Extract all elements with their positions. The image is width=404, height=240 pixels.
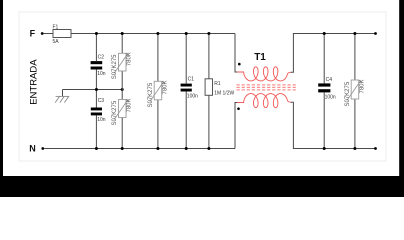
wire F to fuse <box>44 33 53 35</box>
varistor RV4 <box>345 79 365 106</box>
sheet frame <box>19 12 386 161</box>
svg-text:C2: C2 <box>98 54 105 60</box>
varistor RV3 <box>148 80 168 107</box>
capacitor C4 <box>318 77 336 101</box>
junction dot tie-V <box>121 88 124 91</box>
wire primary drop <box>235 34 238 73</box>
svg-text:780K: 780K <box>127 52 133 66</box>
border right <box>399 0 404 197</box>
svg-text:ENTRADA: ENTRADA <box>28 59 39 105</box>
wire column varistor stack <box>121 34 123 54</box>
terminal dot N <box>41 147 44 150</box>
capacitor C1 <box>181 77 199 100</box>
svg-text:5A: 5A <box>53 39 60 45</box>
wire primary return <box>235 103 238 149</box>
svg-text:780K: 780K <box>127 98 133 112</box>
border bottom <box>0 176 404 197</box>
junction dot tie-C <box>95 88 98 91</box>
terminal dot out bottom <box>374 147 377 150</box>
terminal dot out top <box>374 32 377 35</box>
border left <box>0 0 3 197</box>
svg-text:C1: C1 <box>188 77 195 83</box>
svg-text:R1: R1 <box>214 81 221 87</box>
svg-text:N: N <box>29 144 36 154</box>
junction dots right bottom <box>323 147 326 150</box>
wire secondary bottom <box>291 102 376 148</box>
svg-text:S07K275: S07K275 <box>112 100 118 125</box>
wire secondary top <box>291 34 376 73</box>
transformer polarity dot primary <box>238 63 241 66</box>
varistor RV1 <box>112 52 132 79</box>
ground <box>55 96 69 102</box>
wire column C2/C3 <box>95 34 97 62</box>
svg-text:100n: 100n <box>325 95 336 101</box>
junction dots bottom rail <box>95 147 98 150</box>
svg-text:S07K275: S07K275 <box>112 54 118 79</box>
svg-text:C3: C3 <box>98 98 105 104</box>
wire column varistor out <box>354 34 356 81</box>
capacitor C3 <box>91 98 106 123</box>
wire column varistor mid <box>157 34 159 82</box>
transformer secondary winding <box>237 94 291 108</box>
transformer core dashes <box>237 85 298 90</box>
junction dots top rail <box>95 32 98 35</box>
terminal dot F <box>41 32 44 35</box>
svg-text:10n: 10n <box>97 71 106 77</box>
svg-text:F: F <box>30 29 36 39</box>
varistor RV2 <box>112 98 132 125</box>
wire column C4 <box>323 34 325 84</box>
svg-text:T1: T1 <box>254 52 266 63</box>
svg-text:C4: C4 <box>326 77 333 83</box>
svg-text:10n: 10n <box>97 117 106 123</box>
wire top rail <box>71 33 235 35</box>
transformer polarity dot secondary <box>237 107 240 110</box>
svg-text:1M 1/2W: 1M 1/2W <box>214 90 234 96</box>
svg-text:780K: 780K <box>162 80 168 94</box>
svg-text:F1: F1 <box>53 24 59 30</box>
svg-text:S07K275: S07K275 <box>345 81 351 106</box>
capacitor C2 <box>91 54 106 77</box>
fuse F1 <box>53 24 72 45</box>
junction dots right top <box>323 32 326 35</box>
wire column C1 <box>185 34 187 84</box>
wire column R1 <box>208 34 210 79</box>
resistor R1 <box>205 79 234 97</box>
svg-text:100n: 100n <box>187 93 198 99</box>
svg-text:780K: 780K <box>359 79 365 93</box>
transformer primary winding <box>237 67 291 81</box>
wire mid tie <box>63 89 123 91</box>
wire bottom rail <box>44 148 235 150</box>
svg-text:S07K275: S07K275 <box>148 82 154 107</box>
